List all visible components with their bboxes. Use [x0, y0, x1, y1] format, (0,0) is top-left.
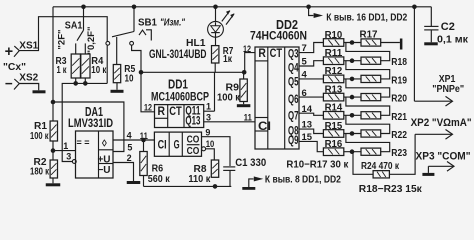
svg-text:= =: = = — [76, 137, 89, 147]
svg-text:15: 15 — [302, 132, 313, 143]
svg-text:SB1: SB1 — [138, 17, 157, 29]
svg-text:11: 11 — [140, 131, 148, 141]
svg-text:3: 3 — [206, 112, 211, 122]
svg-text:XP3 "COM": XP3 "COM" — [416, 150, 471, 162]
svg-text:3: 3 — [66, 152, 71, 162]
svg-text:100 к: 100 к — [217, 92, 241, 103]
svg-text:R17: R17 — [360, 30, 378, 41]
svg-text:74HC4060N: 74HC4060N — [250, 29, 307, 43]
svg-text:12: 12 — [144, 102, 152, 112]
svg-text:LMV331ID: LMV331ID — [68, 116, 113, 130]
svg-text:R15: R15 — [325, 121, 343, 132]
svg-text:7: 7 — [302, 43, 307, 54]
svg-text:CO: CO — [187, 145, 200, 157]
svg-text:GNL-3014UBD: GNL-3014UBD — [149, 47, 207, 61]
svg-text:Q6: Q6 — [288, 94, 299, 106]
svg-text:R18−R23 15к: R18−R23 15к — [359, 184, 423, 195]
svg-text:XS1: XS1 — [19, 40, 38, 51]
svg-text:R21: R21 — [391, 112, 407, 123]
svg-text:560 к: 560 к — [148, 174, 171, 185]
svg-text:R13: R13 — [325, 84, 343, 95]
svg-text:XS2: XS2 — [19, 72, 38, 83]
svg-text:"2F": "2F" — [57, 29, 68, 49]
svg-text:13: 13 — [302, 120, 313, 131]
svg-text:4: 4 — [127, 130, 132, 140]
svg-text:+: + — [5, 44, 13, 60]
svg-text:11: 11 — [244, 112, 252, 122]
svg-text:◊: ◊ — [102, 139, 107, 150]
svg-text:12: 12 — [243, 44, 251, 54]
svg-text:14: 14 — [302, 104, 313, 115]
svg-text:5: 5 — [127, 142, 132, 152]
svg-text:К выв. 8 DD1, DD2: К выв. 8 DD1, DD2 — [265, 175, 341, 186]
svg-text:Q7: Q7 — [288, 111, 299, 123]
svg-text:CT: CT — [270, 48, 283, 60]
svg-text:R24 470 к: R24 470 к — [361, 161, 400, 172]
svg-text:Q9: Q9 — [288, 135, 299, 147]
svg-text:4: 4 — [302, 70, 308, 81]
svg-text:CI: CI — [158, 139, 167, 151]
svg-text:9: 9 — [205, 128, 210, 138]
svg-text:+U: +U — [97, 155, 110, 166]
svg-text:0,1 мк: 0,1 мк — [437, 33, 469, 45]
svg-text:C2: C2 — [441, 21, 455, 33]
svg-text:XP2 "VΩmA": XP2 "VΩmA" — [411, 117, 472, 129]
svg-text:R18: R18 — [391, 57, 407, 68]
svg-text:10 к: 10 к — [91, 65, 107, 76]
svg-text:G: G — [174, 139, 180, 151]
svg-text:R: R — [158, 106, 166, 118]
svg-text:R11: R11 — [325, 48, 343, 59]
svg-text:CT: CT — [169, 106, 182, 118]
svg-text:10: 10 — [206, 139, 215, 149]
svg-text:R22: R22 — [391, 130, 407, 141]
svg-text:C1 330: C1 330 — [235, 157, 266, 169]
svg-text:"Cx": "Cx" — [3, 61, 26, 73]
svg-text:5: 5 — [302, 57, 308, 68]
svg-text:Q3: Q3 — [288, 48, 299, 60]
svg-text:100 к: 100 к — [30, 131, 49, 142]
svg-text:1: 1 — [63, 141, 68, 151]
svg-text:1 к: 1 к — [57, 65, 68, 76]
svg-text:Q13: Q13 — [185, 116, 200, 128]
svg-text:R: R — [258, 48, 266, 60]
svg-text:"Изм.": "Изм." — [160, 17, 186, 29]
svg-text:R12: R12 — [325, 66, 343, 77]
svg-text:6: 6 — [302, 88, 307, 99]
svg-text:180 к: 180 к — [30, 166, 50, 177]
svg-text:10: 10 — [125, 73, 134, 84]
svg-text:Q4: Q4 — [288, 63, 299, 75]
svg-text:Q5: Q5 — [288, 77, 299, 89]
svg-text:R14: R14 — [325, 103, 343, 114]
svg-text:−U: −U — [97, 165, 110, 176]
svg-text:R10−R17 30 к: R10−R17 30 к — [286, 159, 349, 170]
svg-text:R16: R16 — [325, 139, 343, 150]
svg-text:R20: R20 — [391, 94, 407, 105]
svg-text:2: 2 — [127, 153, 132, 163]
svg-text:"PNPе": "PNPе" — [432, 83, 464, 95]
svg-text:DD1: DD1 — [168, 77, 188, 91]
svg-text:R23: R23 — [391, 148, 407, 159]
svg-text:"0,2F": "0,2F" — [86, 26, 97, 54]
svg-text:CI: CI — [258, 119, 271, 133]
svg-text:R10: R10 — [325, 30, 343, 41]
svg-text:CO: CO — [187, 134, 200, 146]
svg-text:R19: R19 — [391, 75, 407, 86]
svg-text:110 к: 110 к — [188, 174, 211, 185]
svg-text:1к: 1к — [223, 54, 233, 65]
svg-text:К выв. 16 DD1, DD2: К выв. 16 DD1, DD2 — [326, 13, 407, 24]
svg-text:MC14060BCP: MC14060BCP — [151, 91, 209, 103]
svg-text:−: − — [5, 76, 13, 91]
